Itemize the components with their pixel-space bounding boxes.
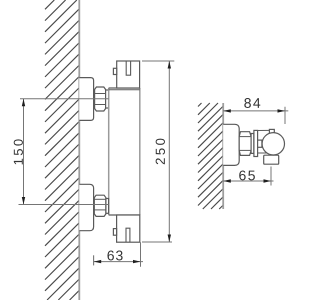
wall face line (side view) (222, 103, 224, 209)
side neck sleeve (251, 134, 254, 154)
knob top tab (269, 129, 274, 134)
dimension 250: dimension line (168, 61, 170, 242)
body right edge (139, 88, 141, 215)
body left edge (108, 88, 110, 215)
dimension 63: extension line left (escutcheon face) (93, 255, 95, 265)
connector top line to knob (258, 129, 270, 131)
bottom union nut (knurled) (94, 195, 106, 216)
top block screw slot (126, 61, 130, 75)
outlet fitting (below knob) (264, 155, 279, 164)
body top edge (109, 87, 140, 89)
body top edge line (109, 89, 140, 91)
dimension 84: dimension line (223, 110, 288, 112)
dimension 63: label (107, 251, 122, 261)
side small button tab (258, 140, 262, 147)
dimension 65: dimension line (223, 180, 273, 182)
dimension 250: arrowheads (168, 61, 171, 69)
main body (front view) (109, 88, 140, 215)
dimension 65: extension line right (270, 167, 272, 186)
connector bottom line to knob (258, 152, 267, 154)
top connector sleeve (106, 90, 109, 108)
dimension 63: arrowheads (94, 260, 102, 263)
top union nut (knurled) (95, 87, 106, 111)
top block left tab (113, 68, 116, 74)
bottom escutcheon (wall flange) (79, 184, 93, 230)
dimension 250: extension lines (142, 61, 174, 242)
side valve slab (254, 130, 258, 156)
dimension 250: label (156, 139, 165, 165)
bottom block left tab (113, 229, 116, 236)
wall hatching (front view) (45, 0, 79, 300)
top nut knurl lines (95, 94, 106, 105)
body bottom edge (109, 214, 140, 216)
dimension 150: dimension line (23, 99, 25, 205)
dimension 150: extension centerlines (19, 99, 109, 205)
bottom nut knurl lines (94, 199, 106, 210)
side nut flat lines (239, 137, 251, 151)
dimension 84: arrowheads (223, 109, 231, 112)
top inlet block (117, 61, 140, 88)
dimension 65: label (239, 170, 255, 180)
wall face line (front view) (78, 0, 80, 300)
wall hatching (side view) (198, 103, 223, 209)
side union nut (239, 132, 251, 156)
bottom connector sleeve (106, 199, 109, 214)
side escutcheon (223, 124, 239, 165)
bottom inlet block (117, 215, 140, 242)
dimension 84: extension line right (284, 107, 286, 124)
dimension 150: arrowheads (22, 99, 25, 107)
top escutcheon (wall flange) (79, 78, 93, 121)
dimension 84: label (244, 98, 260, 108)
handle knob circle (262, 133, 284, 155)
dimension 63: dimension line (94, 261, 143, 263)
bottom block slot (126, 228, 130, 242)
dimension 63: extension line right (140, 242, 142, 267)
dimension 150: label (14, 139, 23, 164)
dimension 65: arrowheads (223, 179, 231, 182)
